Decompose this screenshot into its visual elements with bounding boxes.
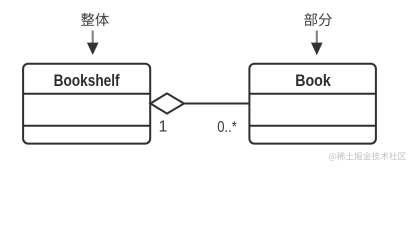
svg-text:1: 1 <box>159 119 168 136</box>
watermark @稀土掘金技术社区 <box>329 152 406 161</box>
class Bookshelf divider 2 <box>23 125 150 127</box>
arrow to Book shaft <box>316 31 318 44</box>
aggregation diamond <box>150 93 184 113</box>
arrow to Bookshelf shaft <box>92 31 94 44</box>
svg-text:Bookshelf: Bookshelf <box>54 72 120 90</box>
wire diamond to Book <box>184 103 250 105</box>
class Book box <box>249 64 376 144</box>
svg-text:Book: Book <box>295 72 331 90</box>
class Book divider 2 <box>249 125 376 127</box>
class Bookshelf divider 1 <box>23 93 150 95</box>
label 部分 (part) <box>304 13 332 26</box>
label 整体 (whole) <box>81 13 109 26</box>
class Bookshelf box <box>23 64 150 144</box>
arrow to Bookshelf head <box>87 43 99 55</box>
svg-text:0..*: 0..* <box>217 119 237 136</box>
class Book divider 1 <box>249 93 376 95</box>
arrow to Book head <box>311 43 323 56</box>
